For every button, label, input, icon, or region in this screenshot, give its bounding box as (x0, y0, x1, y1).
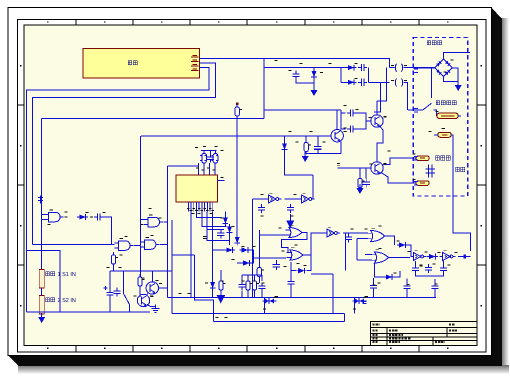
wire drop x252 (251, 199, 253, 297)
heater element FU1 (437, 113, 459, 118)
wire U7A in1 (364, 232, 368, 234)
capacitor C24 (403, 283, 410, 292)
motor enclosure label (427, 41, 442, 45)
wire D6 top (224, 212, 226, 216)
wire D4 down L (285, 152, 314, 175)
wire mcu pin drop 5 (212, 212, 214, 282)
wire C25 leads (434, 292, 436, 298)
connector P2 gap marks (395, 79, 403, 87)
wire U7B out (392, 257, 410, 259)
wire mcu top pin b (203, 163, 205, 175)
wire RC row top rail (242, 274, 262, 276)
diode D15 (427, 254, 438, 260)
power port arrow mid (217, 292, 224, 303)
motor enclosure dashed box (413, 38, 468, 197)
or gate U6A (285, 225, 305, 237)
wire bus y297 (167, 296, 436, 298)
button resistor RB2 (39, 296, 44, 315)
enclosure pin mark 2 (414, 109, 418, 113)
wire T1 link (264, 297, 266, 313)
and gate U4A (115, 239, 134, 251)
mark mcu pins top (196, 168, 216, 170)
diode D13 (296, 268, 307, 274)
crystal Y1 (202, 154, 207, 164)
wire Q2 emitter to E2 (381, 173, 416, 184)
page drop shadow bottom solid (8, 356, 502, 367)
wire base rail y168 (338, 167, 371, 169)
capacitor C20 (440, 265, 447, 274)
capacitor C23 (370, 282, 377, 291)
crystal Y2 side bars (212, 156, 219, 161)
inverter U5A (266, 193, 282, 203)
wire C25 top (434, 279, 436, 283)
wire mcu pin drop 3 (202, 212, 227, 227)
and gate U3B (144, 215, 163, 227)
wire U5C out (343, 232, 368, 234)
wire Y2 leads (215, 151, 217, 154)
zener D4 (282, 141, 288, 152)
wire U8B out to node (458, 256, 470, 258)
wire cluster x237 (236, 234, 238, 236)
sensor electrode E2 (416, 181, 429, 186)
crystal Y1 side bars (200, 156, 207, 161)
igniter label (456, 167, 465, 171)
display module U1 label (128, 61, 137, 65)
water sensor label (436, 156, 451, 160)
capacitor C9 (94, 213, 103, 220)
wire C11 to bus (109, 298, 111, 312)
or gate U7A (367, 228, 388, 241)
diode D12 (210, 280, 216, 291)
mcu U2 bottom pins (187, 202, 214, 212)
wire FU2 left lead (434, 134, 438, 136)
wire pump switch right (434, 110, 437, 115)
capacitor C15 (258, 204, 265, 213)
page drop shadow right blur (501, 18, 509, 370)
button label 1 latin (58, 272, 76, 278)
wire D5 chain to drop (103, 217, 111, 245)
wire switch top feed (430, 84, 432, 98)
wire rail x167 down (166, 166, 168, 297)
resistor R11 (257, 265, 264, 280)
wire left rail x41 down to button resistors (41, 119, 43, 270)
ground G1 (152, 305, 160, 313)
capacitor C7 (314, 143, 321, 152)
wire R8 riser (220, 270, 222, 281)
power port arrow under R4 (302, 152, 309, 162)
wire cluster right x253 (250, 250, 253, 263)
button resistor RB1 (39, 270, 44, 289)
power port arrow under R3 (356, 184, 363, 194)
wire bus link x344 (344, 313, 346, 321)
wire C23 top (373, 278, 375, 282)
enclosure pin mark 3 (414, 157, 418, 161)
button label 2 latin (58, 298, 76, 304)
capacitor C18 (287, 278, 294, 287)
wire inv1 to inv2 (285, 198, 299, 200)
capacitor C4 (347, 109, 356, 116)
wire mcu pin drop 4 (207, 212, 229, 241)
wire mcu right pin (218, 180, 225, 182)
wire D16 right (395, 271, 401, 277)
wire R7 to Q5 (139, 286, 141, 297)
transistor Q3 (331, 130, 347, 143)
capacitor C19 (412, 265, 419, 274)
capacitor C10 (113, 288, 120, 297)
wire U3A in stubs (42, 214, 45, 216)
wire cluster h y250 (213, 249, 224, 251)
page drop shadow right solid (492, 8, 503, 367)
connector P1 gap marks (395, 64, 403, 72)
wire Y1 leads (203, 151, 205, 154)
wire heater right down (458, 115, 461, 117)
bridge rectifier B1 frame (435, 59, 453, 77)
wire C5 left (341, 113, 346, 129)
wire U1 pin3 loop to left rail (27, 68, 210, 313)
wires RC row risers (242, 275, 262, 297)
mcu U2 (176, 175, 218, 202)
wire mcu top pin a (198, 163, 200, 175)
capacitor C8 (207, 154, 214, 163)
wire D4 branch (284, 136, 286, 141)
wire T2 link (354, 297, 356, 313)
wire bridge top to right (444, 52, 471, 59)
wire U1 pin2 loop to left rail (33, 63, 216, 245)
button label 1 cjk (46, 272, 55, 276)
wire R5 top (236, 105, 238, 107)
capacitor C12 (217, 230, 224, 239)
power port arrow bridge (455, 81, 462, 91)
diode D6 (223, 215, 229, 226)
wire y110 rail to caps (264, 109, 341, 111)
mark P2 pin a (391, 80, 394, 82)
title block text marks (373, 323, 458, 343)
wire x345 drop (344, 233, 346, 271)
wire C8 lead (210, 151, 212, 154)
wire P1 left half (390, 67, 395, 69)
wire R4 top (305, 136, 307, 142)
mark pin drop (203, 237, 206, 239)
wire Q4 out right (159, 287, 168, 289)
page drop shadow bottom blur (18, 365, 509, 374)
mark XT1 (195, 147, 198, 149)
wire C18 to bus (290, 287, 292, 297)
capacitor C21 (425, 264, 432, 273)
wire U4A out to U4B (134, 245, 141, 247)
mark U3B in2 (141, 224, 144, 226)
zener D1 (311, 69, 317, 80)
capacitor C13 (238, 281, 245, 290)
wire C24 top (406, 279, 408, 283)
switch S3 blade (423, 103, 432, 110)
border zone reference dots (20, 21, 482, 349)
wire R4 bottom lead (305, 152, 307, 154)
and gate U4B (140, 238, 159, 250)
wire inverter feed (312, 175, 314, 199)
wire drop x259 (258, 230, 260, 265)
wire C1 bottom to ground (296, 80, 314, 83)
wire Q1 collector (376, 101, 378, 115)
resistor R4 (304, 140, 311, 155)
wire cap row bottom (416, 274, 444, 276)
resistor R5 (235, 104, 242, 119)
enclosure pin mark 4 (414, 182, 418, 186)
sensor electrode E1 (416, 156, 429, 161)
heater element FU2 (438, 132, 452, 137)
wire rect cluster right post (368, 68, 370, 83)
wire D1 bottom to arrow (313, 80, 315, 88)
capacitor C2 (358, 64, 367, 71)
wire U6A in2 (259, 234, 285, 236)
capacitor C16 (287, 204, 294, 213)
zener D14 (397, 242, 408, 248)
wire C7 bottom lead (317, 152, 319, 155)
mark U3A out (65, 216, 68, 218)
inverter U8B (440, 251, 456, 261)
mark C11 plus (104, 286, 108, 290)
wire bridge bottom (444, 77, 459, 82)
wire mcu pin drop 2 (196, 212, 221, 218)
switch S1 blade (124, 294, 130, 305)
wire Q1 emitter (377, 127, 383, 147)
pump label (436, 101, 456, 105)
wire bus y321 (214, 321, 345, 323)
wire U6B out up (306, 233, 323, 255)
connector pin J1 (38, 196, 43, 204)
wire U7B in1 (365, 254, 372, 256)
transistor Q1 (371, 115, 387, 127)
wire inv row feed (252, 198, 265, 200)
or gate U7B (371, 250, 392, 263)
wire FU2 to long drop (451, 135, 470, 251)
wire y274 link (311, 273, 333, 275)
wire bus y250 left (27, 251, 61, 313)
diode D10 (239, 247, 250, 253)
capacitor C1 (292, 71, 299, 80)
wire row2 left stub (341, 81, 347, 83)
diode D16 (384, 274, 395, 280)
wire bridge left (413, 67, 435, 69)
wire Q3 collector (336, 110, 338, 130)
wire RB2 bottom (41, 314, 43, 316)
transistor Q4 (146, 282, 162, 295)
mark mcu right pin (221, 177, 224, 179)
and gate U3A (45, 210, 64, 222)
svg-text:1 S1 IN: 1 S1 IN (58, 272, 76, 278)
power port arrow under RB2 (38, 313, 45, 323)
wire R11 bottom (258, 277, 260, 284)
border zone ticks left and right (18, 105, 487, 265)
transistor Q5 (137, 294, 153, 307)
crystal Y2 (213, 154, 218, 164)
mark above FU2 (441, 128, 445, 130)
wire rect cluster left post (340, 68, 342, 83)
wire Q2 collector (376, 146, 378, 162)
wire to pump switch (408, 109, 423, 111)
transistor Q2 (371, 162, 387, 175)
mark rail stub (337, 164, 340, 166)
mark C19 (420, 265, 423, 267)
wire U3B out (164, 221, 168, 223)
capacitor C22 (345, 234, 352, 243)
wire S1 bottom (129, 305, 131, 313)
triac T1 (263, 297, 279, 305)
wire bridge left vertex drop (430, 68, 432, 84)
wire U4B out (160, 244, 168, 246)
or gate U6B (286, 248, 306, 260)
wire C20 top (443, 261, 445, 265)
wire D1 top lead (313, 68, 315, 69)
wire U3B in feed (141, 219, 144, 221)
wire C6 feed (365, 168, 367, 178)
svg-text:2 S2 IN: 2 S2 IN (58, 298, 76, 304)
wire drop x386 (377, 68, 387, 101)
power port arrow under D1 (310, 86, 317, 96)
mark D5 right (90, 216, 93, 218)
wire rail y166 to mcu (167, 165, 198, 167)
wire U3A in stub 2 (42, 218, 45, 220)
wire Q1 base (366, 120, 371, 122)
capacitor C6 (363, 179, 370, 188)
wire U7B in2 (357, 259, 372, 261)
power flag R5 (236, 103, 239, 106)
wire C19 top (415, 261, 417, 265)
power arrow into latch (287, 214, 294, 227)
display module U1 pins (191, 55, 199, 70)
wire Q5 emitter to gnd (147, 305, 155, 307)
wire U7A out (388, 236, 395, 245)
wire row y67.6 (264, 67, 347, 69)
mark P1 pin b (404, 65, 407, 67)
capacitor C11 polarized (106, 289, 113, 298)
wire D16 left (374, 263, 383, 277)
wire connector P1 right half (404, 67, 435, 69)
wire mcu top pin c (209, 163, 211, 175)
wire cap C11 drop (113, 264, 115, 271)
bridge rectifier B1 diodes (436, 61, 450, 75)
wire C24 leads (406, 292, 408, 298)
wire rail x141 down (140, 136, 142, 277)
enclosure pin mark 1 (414, 69, 418, 73)
wire C7 top (317, 136, 319, 143)
wire bridge right loop (452, 68, 458, 82)
diode D2 (346, 65, 357, 71)
wire R8 drop (220, 290, 222, 297)
capacitor C25 (431, 283, 438, 292)
border zone ticks top and bottom (76, 20, 419, 353)
wire drop x194 (195, 255, 214, 322)
wire caps row top (341, 110, 346, 113)
mark P1 pin a (391, 65, 394, 67)
wire C17 drop (275, 260, 277, 261)
capacitor C3 (358, 79, 367, 86)
wire C4 to node (356, 113, 366, 129)
wire crystal top rail (201, 150, 217, 152)
wire x291 drop (290, 262, 292, 278)
wire cluster x229 drop (229, 235, 231, 245)
resistor R10 (252, 278, 259, 293)
wire arrow stem (304, 153, 306, 155)
wire node to Q1 base (365, 120, 367, 122)
wire C23 leads (373, 291, 375, 297)
resistor R8 (219, 278, 226, 293)
mark XT2 (221, 150, 224, 152)
wire Q4 collector (151, 271, 153, 282)
resistor R7 (138, 274, 145, 289)
wire D14 out (408, 245, 411, 257)
mark P2 pin b (404, 80, 407, 82)
wire D13 out (307, 255, 311, 271)
wire mcu top pin d (214, 163, 216, 175)
wire drop x172 (171, 220, 173, 313)
wire cluster h y229 (207, 229, 224, 231)
resistor R6 (111, 252, 118, 267)
wire RB1 to RB2 (41, 288, 43, 296)
triac T2 (353, 297, 369, 305)
mark near D1 (320, 72, 323, 74)
wire x357 drop (356, 239, 358, 261)
wire U6A out loop to U6B in (281, 233, 307, 253)
capacitor C5 (347, 125, 356, 132)
junction node (464, 255, 467, 259)
wire main vertical x264 (263, 59, 265, 119)
wire U6B in2 (252, 257, 286, 259)
mark D12 (205, 282, 208, 284)
sheet inner border / drawing area (24, 25, 477, 346)
wire cluster h y263 (237, 262, 241, 264)
wire R4 C7 bottom rail (305, 152, 341, 154)
inverter U5C (324, 227, 340, 237)
wire bus y313 (172, 312, 345, 314)
wire P2 to pump drop (404, 82, 408, 110)
mark latch 1 (296, 263, 299, 265)
wire y255 join (172, 254, 195, 256)
inverter U8A (410, 251, 426, 261)
wire R5 down rail (236, 116, 238, 240)
mark near Q2 (388, 150, 391, 152)
wire bus y118 (42, 118, 264, 120)
wire rail y136 to Q3 base (141, 135, 331, 137)
wire mcu pin drop 1 (190, 212, 192, 298)
wire pol cap branch (109, 271, 111, 289)
wire D12 to bus (212, 291, 214, 298)
wire Q4 emitter to Q5 (147, 293, 149, 296)
mark small comp2 (363, 303, 367, 305)
wire U1 pin1 to motor box (200, 59, 390, 68)
capacitor C17 (273, 261, 280, 270)
wire D13 rail (291, 270, 296, 272)
mark near C1 (289, 70, 292, 72)
wire cluster out row2 (369, 81, 390, 83)
wire R3 feed (359, 168, 361, 175)
mark near Q3 (344, 127, 347, 129)
mark small comp (363, 301, 367, 303)
wire switch S1 top (123, 271, 125, 294)
wire bus y244 left (33, 244, 115, 246)
display module U1 (83, 49, 200, 79)
wire x333 drop (332, 274, 334, 313)
diode D11 (241, 260, 252, 266)
diode D8 (234, 235, 240, 246)
button label 2 cjk (46, 298, 55, 302)
capacitor C14 (258, 283, 265, 292)
diode D3 (346, 80, 357, 86)
wire bus y312 left (27, 311, 151, 313)
resistor R3 (358, 176, 365, 191)
wire U7A in2 (357, 238, 368, 240)
wire drop x380 (374, 82, 381, 112)
wire Q3 emitter (339, 141, 342, 154)
